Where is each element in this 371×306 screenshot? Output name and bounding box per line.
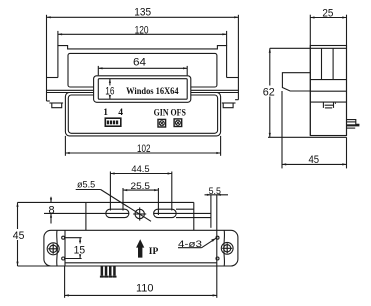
- side view: top lip line: [310, 47, 346, 49]
- bottom view: right ear waist line: [223, 230, 226, 266]
- bottom view: dimension 45 line upper part: [17, 202, 19, 229]
- bottom view: mounting slot 2: [154, 209, 177, 217]
- svg-text:IP: IP: [149, 247, 159, 257]
- bottom view: 4-diameter-3 leader line: [202, 238, 216, 247]
- bottom view: dimension 45 line lower part: [17, 240, 19, 266]
- bottom view: output pins block: [100, 266, 117, 277]
- side view: lower shelf line: [310, 101, 346, 103]
- bottom view: ear hole top left: [62, 236, 65, 239]
- front view: dimension 135 line: [47, 16, 239, 18]
- front view: dimension 102 right extension: [220, 136, 222, 156]
- side view: right edge with 25 extension: [346, 15, 348, 136]
- svg-text:110: 110: [136, 283, 154, 295]
- side view: dimension 62 arrows: [269, 48, 271, 137]
- bottom view: body envelope with ears: [44, 230, 238, 266]
- svg-text:15: 15: [74, 244, 86, 256]
- bottom view: body right edge: [216, 230, 218, 266]
- side view: dimension 45 left extension: [281, 91, 283, 168]
- svg-text:16: 16: [105, 85, 114, 97]
- bottom view: dimension 15 bottom extension: [65, 258, 82, 260]
- svg-text:8: 8: [49, 205, 55, 217]
- side view: core bottom line: [310, 79, 346, 81]
- side view: trimpot under shelf: [323, 102, 336, 108]
- side view: window boss protrusion with chamfer: [282, 73, 310, 91]
- front view: dimension 135 right extension / right tab outer edge: [237, 15, 239, 100]
- bottom view: center hole cross horizontal: [133, 213, 146, 215]
- bottom view: ear hole top right: [216, 236, 219, 239]
- bottom view: dimension 8 upper tail: [50, 197, 52, 203]
- svg-text:64: 64: [133, 56, 146, 68]
- front view: dimension 102 line: [65, 152, 220, 154]
- bottom view: ear hole bottom right: [216, 257, 219, 260]
- svg-text:44.5: 44.5: [131, 164, 149, 174]
- svg-text:GIN OFS: GIN OFS: [154, 108, 186, 118]
- svg-text:25: 25: [322, 7, 333, 19]
- front view: dimension 16 line lower part: [109, 96, 111, 99]
- side view: left edge with 25 extension: [309, 15, 311, 136]
- bottom view: dimension 44.5 left extension: [109, 172, 111, 211]
- side view: dimension 62 top extension: [270, 47, 311, 49]
- front view: dimension 64 right extension: [186, 66, 188, 75]
- bottom view: dimension 25.5 line: [123, 189, 158, 191]
- bottom view: 4-diameter-3 leader underline: [178, 247, 202, 249]
- svg-text:120: 120: [135, 25, 149, 37]
- bottom view: dimension 5.5 right extension / body edge extension: [216, 195, 218, 231]
- bottom view: right screw: [221, 242, 233, 254]
- svg-text:25.5: 25.5: [131, 181, 151, 191]
- bottom view: dimension 25.5 left extension: [122, 188, 124, 211]
- side view: dimension 45 line: [282, 163, 347, 165]
- bottom view: dimension 110 left extension: [64, 266, 66, 298]
- side view: body outline: [310, 46, 346, 136]
- bottom view: rear flange top edge with 45 and 8 extension: [18, 201, 194, 203]
- front view: dimension 135 left extension / left tab outer edge: [46, 15, 48, 101]
- front view: dimension 120 line: [58, 33, 227, 35]
- bottom view: dimension 45 arrows: [16, 202, 18, 266]
- front view: lower housing outer outline: [65, 93, 220, 136]
- front view: gain potentiometer: [158, 119, 166, 127]
- front view: dimension 120 right extension: [226, 31, 228, 46]
- side view: dimension 45 right extension: [346, 137, 348, 168]
- front view: dimension 64 line: [98, 67, 187, 69]
- bottom view: dimension 44.5 line: [110, 172, 171, 174]
- bottom view: primary current arrow IP: [136, 239, 144, 257]
- svg-text:45: 45: [13, 230, 25, 242]
- bottom view: flange step line through slot 2: [154, 212, 211, 214]
- side view: core slot right line: [332, 48, 334, 79]
- side view: dimension 25 line: [310, 16, 346, 18]
- svg-text:5.5: 5.5: [209, 186, 221, 196]
- bottom view: groove bottom line right of slot 2: [176, 217, 211, 219]
- bottom view: dimension 5.5 line: [205, 194, 229, 196]
- bottom view: groove end vertical with 5.5 extension: [210, 195, 212, 228]
- bottom view: dimension 15 line: [79, 238, 81, 259]
- bottom view: dimension 110 line: [65, 294, 217, 296]
- front view: upper housing outline with raised end lips: [58, 46, 227, 78]
- front view: left tab bottom tick: [47, 100, 50, 102]
- front view: right tab top edge: [227, 77, 239, 79]
- bottom view: ear hole bottom left: [62, 257, 65, 260]
- svg-text:1: 1: [103, 108, 108, 118]
- front view: neck lower line: [47, 92, 239, 94]
- front view: dimension 102 left extension: [64, 136, 66, 156]
- bottom view: dimension 8 lower tail: [50, 213, 52, 223]
- front view: upper housing inner seam: [68, 53, 217, 87]
- front view: left tab foot top line: [49, 102, 63, 104]
- front view: neck upper line: [47, 89, 239, 91]
- svg-text:Windos 16X64: Windos 16X64: [126, 87, 179, 97]
- svg-text:135: 135: [134, 6, 151, 18]
- bottom view: left ear waist line: [56, 230, 59, 266]
- front view: left tab top edge: [47, 77, 58, 79]
- bottom view: diameter 5.5 leader line: [101, 190, 151, 222]
- svg-text:ø5.5: ø5.5: [77, 179, 95, 189]
- svg-text:102: 102: [137, 143, 151, 155]
- front view: window opening: [98, 79, 187, 100]
- bottom view: dimension 45 bottom extension: [18, 265, 51, 267]
- front view: right tab foot: [223, 103, 233, 108]
- bottom view: dimension 44.5 right extension: [171, 172, 173, 211]
- bottom view: dimension 15 top extension: [65, 237, 82, 239]
- front view: window boss: [94, 76, 191, 103]
- bottom view: dimension 110 right extension: [216, 266, 218, 298]
- bottom view: groove top line right of slot 2: [176, 208, 194, 210]
- front view: right tab foot top line: [222, 102, 236, 104]
- bottom view: diameter 5.5 leader underline: [76, 189, 101, 191]
- bottom view: center hole cross vertical: [139, 207, 141, 220]
- side view: middle band line: [310, 90, 346, 92]
- side view: bottom base line: [268, 136, 347, 138]
- front view: lower housing inner seam: [68, 95, 217, 133]
- bottom view: body inner seam bottom line: [65, 262, 217, 264]
- bottom view: left screw: [47, 243, 59, 255]
- front view: offset potentiometer: [174, 119, 182, 127]
- bottom view: rear flange right edge: [193, 202, 195, 230]
- front view: connector J1: [105, 118, 121, 126]
- bottom view: mounting slot 1: [106, 209, 129, 217]
- front view: right tab bottom tick: [235, 99, 238, 101]
- bottom view: center hole circle: [135, 209, 144, 218]
- front view: dimension 120 left extension: [57, 31, 59, 46]
- side view: dimension 62 line upper part: [269, 48, 271, 85]
- svg-text:62: 62: [263, 86, 275, 98]
- side view: output connector: [347, 120, 360, 129]
- bottom view: dimension 25.5 right extension: [157, 188, 159, 215]
- bottom view: body left edge: [64, 230, 66, 266]
- svg-text:45: 45: [309, 154, 320, 166]
- svg-text:4: 4: [118, 108, 123, 118]
- front view: dimension 16 arrows: [109, 79, 111, 100]
- front view: dimension 16 line upper part: [109, 79, 111, 86]
- front view: left tab foot: [52, 103, 62, 108]
- side view: core slot left line: [321, 48, 323, 79]
- front view: dimension 64 left extension: [97, 66, 99, 75]
- bottom view: rear flange left edge: [85, 202, 87, 230]
- bottom view: flange step line through slot 1: [44, 212, 129, 214]
- side view: dimension 62 line lower part: [269, 97, 271, 138]
